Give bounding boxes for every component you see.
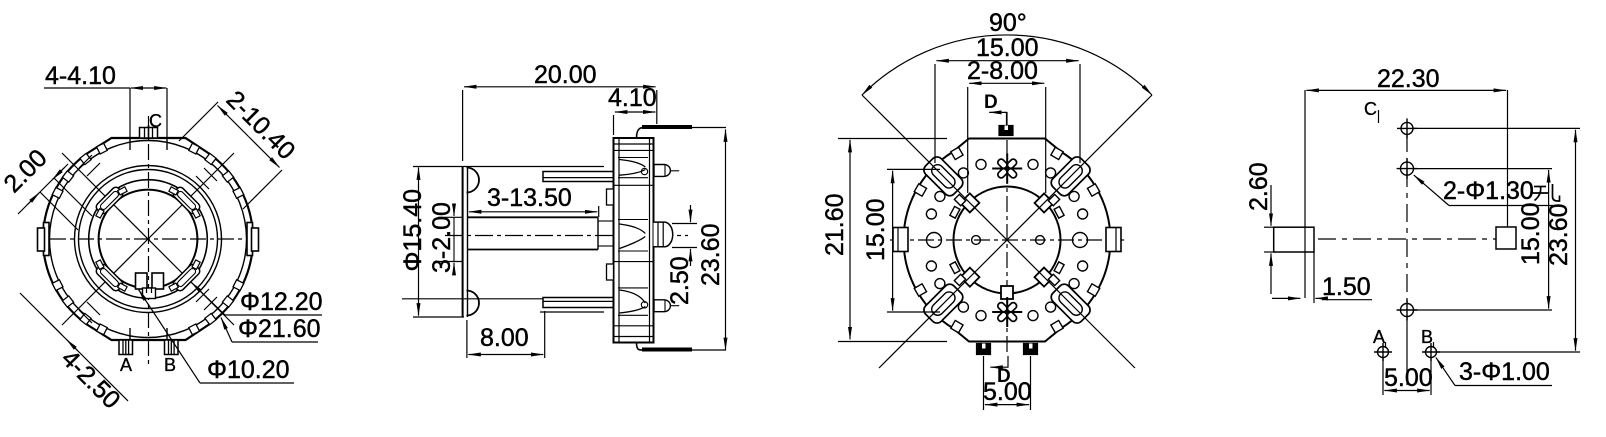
svg-text:3-2.00: 3-2.00 [428, 202, 456, 273]
v1 pin B [165, 340, 179, 355]
svg-text:5.00: 5.00 [983, 378, 1032, 406]
v1 pin C [140, 128, 158, 139]
svg-text:C: C [1364, 99, 1377, 119]
v4 hole 3 [1397, 300, 1418, 321]
v3 slot NW [921, 154, 965, 198]
svg-text:Φ10.20: Φ10.20 [207, 356, 290, 384]
v3 right side tab [1106, 228, 1121, 252]
v2 top plate [637, 127, 651, 138]
v2 bottom plate [637, 343, 651, 351]
svg-text:4.10: 4.10 [608, 84, 657, 112]
v1 diagonal line NW-SE [62, 153, 234, 325]
svg-text:B: B [164, 355, 176, 375]
v1 inner profile 10.20 [99, 190, 198, 289]
v2 upper funnel horn [620, 160, 646, 176]
v3 inner diagonal notches [960, 193, 1053, 286]
v1 dim 4-2.50 lines [45, 318, 128, 401]
v3 clover contact marker top [992, 154, 1022, 184]
v3 inner opening [954, 187, 1061, 294]
svg-text:5.00: 5.00 [1384, 364, 1433, 392]
v3 inner diagonal outer ticks [954, 194, 1059, 285]
v1 outer profile [43, 138, 253, 340]
svg-text:Φ15.40: Φ15.40 [399, 189, 427, 272]
v2 lower left pin [543, 298, 614, 308]
v2 lower pin exit [654, 300, 670, 312]
svg-text:Φ21.60: Φ21.60 [238, 315, 321, 343]
v3 bottom pin left [977, 344, 991, 355]
v1 left side tab [44, 223, 50, 256]
v3 hole circles r80 [926, 159, 1087, 320]
svg-text:20.00: 20.00 [534, 61, 597, 89]
v3 center side circles [972, 236, 981, 245]
svg-text:21.60: 21.60 [821, 193, 849, 256]
v1 centerline horizontal [50, 238, 246, 240]
v3 rim squares [914, 147, 1099, 332]
svg-text:C: C [149, 111, 162, 131]
svg-text:8.00: 8.00 [480, 324, 529, 352]
svg-text:2-8.00: 2-8.00 [967, 57, 1038, 85]
v3 top pin D [999, 126, 1013, 136]
v2 left flange [462, 166, 464, 317]
svg-text:3-13.50: 3-13.50 [487, 184, 572, 212]
v3 slot NE [1049, 154, 1093, 198]
v1 diagonal line SW-NE [62, 153, 234, 325]
svg-text:15.00: 15.00 [862, 198, 890, 261]
v4 row line hole2 [1414, 168, 1553, 170]
v4 hole B [1422, 343, 1440, 361]
v4 left pad [1274, 227, 1314, 252]
v1 inner bottom stem [143, 288, 156, 299]
v2 body left small tabs [607, 189, 614, 205]
svg-text:22.30: 22.30 [1377, 65, 1440, 93]
v3 diagonal NW-SE [862, 95, 1135, 368]
v1 flange ring outer [75, 166, 222, 313]
v2 flange bottom lobe [467, 291, 480, 316]
v1 top slot lines [129, 138, 131, 150]
v4 row line hole3 [1414, 309, 1553, 311]
v3 inner bottom notch [1001, 286, 1013, 299]
v1 dim 2-10.40 lines [218, 106, 249, 137]
v3 clover contact marker bottom [992, 297, 1022, 327]
v4 hole 2 [1397, 158, 1418, 179]
v3 dim 90 deg arc [862, 35, 1152, 95]
v4 row line AB [1437, 351, 1581, 353]
v4 centerline vertical [1406, 134, 1408, 303]
v1 inner rim circle [50, 141, 247, 338]
svg-text:23.60: 23.60 [1545, 203, 1573, 266]
v2 center funnel horn [620, 224, 646, 249]
svg-text:A: A [120, 355, 132, 375]
svg-text:2.60: 2.60 [1245, 162, 1273, 211]
svg-text:1.50: 1.50 [1322, 273, 1371, 301]
v3 side big circles [927, 233, 942, 248]
v2 lower funnel horn [620, 290, 646, 313]
v2 flange top lobe [467, 168, 480, 193]
v2 core tube [468, 216, 599, 218]
v1 inner bottom notches [136, 273, 148, 289]
svg-text:2.50: 2.50 [666, 256, 694, 305]
v1 pin A [119, 340, 133, 355]
svg-text:3-Φ1.00: 3-Φ1.00 [1459, 358, 1550, 386]
v1 diagonal slot walls NE [79, 155, 217, 323]
v2 body internal lines [614, 150, 654, 325]
v4 hole C [1397, 118, 1417, 138]
svg-text:2-Φ1.30: 2-Φ1.30 [1443, 177, 1534, 205]
v1 diagonal pads [95, 186, 202, 293]
v3 slot SE [1049, 282, 1093, 326]
v4 right pad [1496, 227, 1516, 249]
v1 pad end ticks [96, 187, 200, 291]
svg-text:23.60: 23.60 [697, 223, 725, 286]
v1 right side tab [247, 223, 253, 256]
v3 diagonal SW-NE [879, 95, 1152, 368]
v1 flange ring inner [79, 170, 218, 309]
svg-text:Φ12.20: Φ12.20 [240, 288, 323, 316]
v4 centerline horizontal [1283, 238, 1516, 240]
v1 centerline vertical [148, 116, 150, 368]
svg-text:A: A [1373, 327, 1385, 347]
svg-text:B: B [1421, 327, 1433, 347]
v3 centerline horizontal [890, 239, 1124, 241]
v3 slot SW [921, 282, 965, 326]
v1 circle 12.20 [89, 180, 208, 299]
v3 inner ring ticks [950, 206, 1064, 273]
svg-text:90°: 90° [989, 9, 1027, 37]
v3 centerline vertical [1006, 112, 1008, 352]
v2 body outline [614, 138, 654, 343]
v4 hanzi hole glyph [1532, 184, 1560, 201]
v2 upper left pin [543, 172, 614, 182]
v4 hole A [1374, 343, 1392, 361]
v2 centerline [445, 235, 688, 237]
v1 rim notch squares [52, 143, 244, 335]
v1 dim 4-4.10 lines [44, 87, 130, 89]
v3 outer profile [904, 139, 1111, 342]
v2 upper pin exit [654, 165, 670, 177]
v3 left side tab [893, 228, 908, 252]
svg-text:15.00: 15.00 [1517, 202, 1545, 265]
v1 dim 2.00 lines [18, 164, 68, 214]
svg-text:D: D [984, 92, 998, 113]
v3 bottom pin right [1024, 344, 1038, 355]
svg-text:4-4.10: 4-4.10 [45, 62, 116, 90]
v4 row line C [1413, 127, 1580, 129]
v2 center pin [654, 222, 673, 247]
v1 bottom slot lines [129, 328, 131, 340]
